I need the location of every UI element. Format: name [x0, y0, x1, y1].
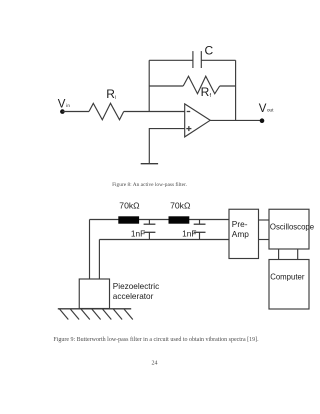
svg-text:i: i [115, 95, 116, 101]
wire capacitor C to right vertical [201, 59, 235, 61]
node Vout terminal dot [260, 118, 265, 123]
svg-text:R: R [106, 87, 115, 101]
svg-text:Oscilloscope: Oscilloscope [270, 223, 314, 232]
label Vin [58, 99, 71, 111]
svg-text:in: in [66, 103, 70, 108]
svg-text:Figure 9: Butterworth low-pass: Figure 9: Butterworth low-pass filter in… [53, 336, 259, 343]
resistor Rf [183, 76, 220, 94]
wire lower line [99, 239, 229, 241]
wire op-amp output to Vout [210, 119, 262, 121]
svg-text:70kΩ: 70kΩ [170, 201, 191, 211]
svg-text:1nF: 1nF [182, 228, 196, 238]
svg-text:V: V [58, 99, 66, 111]
wire left vertical from main line to accelerator [89, 220, 91, 280]
label Ri [106, 87, 116, 101]
svg-text:Piezoelectric: Piezoelectric [113, 282, 159, 291]
svg-text:Pre-: Pre- [232, 219, 248, 229]
box Oscilloscope [269, 209, 309, 249]
svg-text:70kΩ: 70kΩ [119, 201, 140, 211]
label Vout [259, 103, 274, 115]
svg-text:R: R [201, 85, 210, 99]
node Vin terminal dot [60, 109, 65, 114]
wire middle to resistor Rf [149, 85, 183, 87]
resistor 70k first [118, 216, 139, 223]
label Rf [201, 85, 212, 99]
svg-text:C: C [205, 44, 214, 58]
svg-text:Computer: Computer [270, 272, 305, 281]
svg-text:out: out [267, 108, 274, 113]
wire top to capacitor C [149, 59, 193, 61]
svg-text:1nF: 1nF [131, 228, 145, 238]
ground line [58, 308, 131, 310]
svg-text:24: 24 [152, 361, 158, 367]
capacitor C [192, 51, 194, 68]
wire feedback left vertical [148, 60, 150, 111]
wire Ri to op-amp inverting input [124, 111, 185, 113]
svg-text:accelerator: accelerator [113, 292, 154, 301]
wire feedback right vertical [235, 60, 237, 120]
ground hatch [60, 309, 133, 320]
op-amp U1 [185, 104, 211, 137]
wire Pre-Amp to Oscilloscope lower [259, 239, 270, 241]
resistor 70k second [169, 216, 190, 223]
svg-text:Amp: Amp [232, 229, 249, 239]
wire Oscilloscope to Computer left [278, 249, 280, 260]
wire Pre-Amp to Oscilloscope upper [259, 219, 270, 221]
box Piezoelectric accelerator [79, 279, 109, 309]
wire Vin to resistor Ri [62, 111, 89, 113]
wire Oscilloscope to Computer right [297, 249, 299, 260]
box Pre-Amp [229, 209, 259, 258]
svg-text:f: f [210, 93, 212, 99]
svg-text:Figure 8: An active low-pass f: Figure 8: An active low-pass filter. [112, 181, 187, 188]
svg-text:V: V [259, 103, 267, 115]
box Computer [269, 260, 309, 310]
wire main top line [90, 219, 230, 221]
capacitor 1nF second [199, 220, 201, 225]
label Pre-Amp [232, 219, 249, 239]
ground [141, 163, 158, 165]
wire left vertical from lower line to accelerator [98, 240, 100, 280]
capacitor 1nF first [148, 220, 150, 225]
wire Rf to right vertical [220, 85, 236, 87]
wire non-inverting input [149, 129, 184, 164]
resistor Ri [89, 103, 124, 120]
label Piezoelectric accelerator [113, 282, 159, 301]
